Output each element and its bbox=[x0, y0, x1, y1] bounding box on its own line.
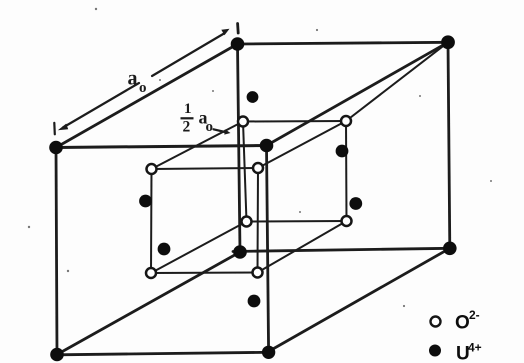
svg-text:O: O bbox=[455, 313, 470, 334]
svg-text:o: o bbox=[206, 119, 214, 135]
svg-text:a: a bbox=[128, 68, 138, 90]
svg-text:2-: 2- bbox=[469, 308, 480, 322]
svg-text:2: 2 bbox=[183, 119, 191, 136]
svg-text:o: o bbox=[139, 80, 147, 96]
svg-text:4+: 4+ bbox=[468, 341, 482, 355]
svg-text:1: 1 bbox=[184, 101, 192, 117]
